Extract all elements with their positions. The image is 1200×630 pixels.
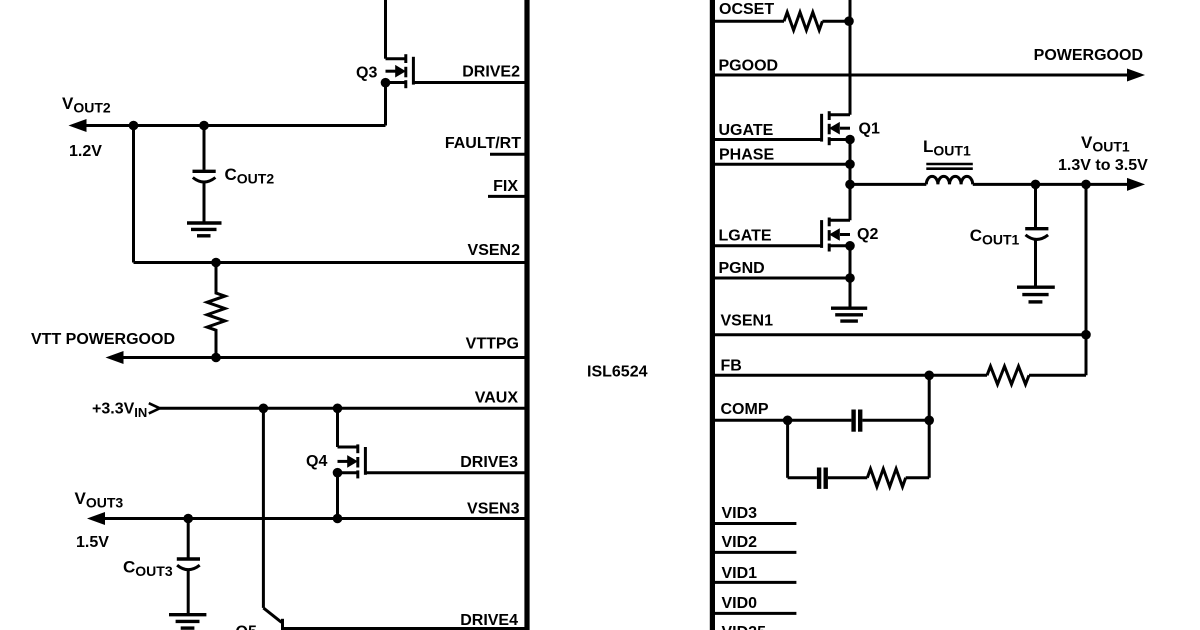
wire +12V rail from top to Q1 drain xyxy=(849,0,852,115)
svg-text:Q3: Q3 xyxy=(356,65,377,82)
svg-text:VID0: VID0 xyxy=(722,595,758,612)
pin stub VID3 xyxy=(713,522,796,525)
svg-text:ISL6524: ISL6524 xyxy=(587,364,648,381)
pin label VID2 xyxy=(722,534,758,551)
pin label DRIVE4 xyxy=(460,612,518,629)
pin stub VID0 xyxy=(713,612,796,615)
label transistor Q2 xyxy=(857,226,878,243)
wire Q4 source to VSEN3 rail xyxy=(336,473,339,519)
svg-text:COMP: COMP xyxy=(721,401,769,418)
pin label FIX xyxy=(493,178,518,195)
label net POWERGOOD xyxy=(1034,47,1143,64)
arrow POWERGOOD (right) xyxy=(1127,69,1145,82)
wire DRIVE3 pin to Q4 gate xyxy=(365,471,527,474)
wire FB pin line xyxy=(713,374,987,377)
svg-text:VID1: VID1 xyxy=(722,565,758,582)
node VSEN1 / feedback tap xyxy=(1081,330,1091,340)
node Q2 source junction xyxy=(845,241,855,251)
svg-text:FAULT/RT: FAULT/RT xyxy=(445,135,521,152)
wire VOUT1 to VSEN1/FB drop xyxy=(1085,184,1088,375)
node PHASE junction xyxy=(845,159,855,169)
node VSEN3 / Q4 source tap xyxy=(333,514,343,524)
wire lower branch left lead xyxy=(788,476,817,479)
svg-text:PHASE: PHASE xyxy=(719,147,774,164)
wire COMP pin line xyxy=(713,419,788,422)
wire phase node to LOUT1 xyxy=(850,183,926,186)
resistor OCSET xyxy=(784,12,822,30)
pin label VID3 xyxy=(722,505,758,522)
node VOUT1 / COUT1 tap xyxy=(1031,180,1041,190)
pin label VTTPG xyxy=(466,336,519,353)
pin label COMP xyxy=(721,401,769,418)
wire COUT2 bottom lead xyxy=(203,182,206,222)
svg-text:1.5V: 1.5V xyxy=(76,534,109,551)
wire COUT1 bottom lead xyxy=(1034,239,1037,286)
pin label DRIVE2 xyxy=(462,64,520,81)
wire lower resistor to FB drop xyxy=(906,476,930,479)
node phase / inductor tap xyxy=(845,180,855,190)
node Q4 source junction xyxy=(333,468,343,478)
arrow VTT POWERGOOD (left) xyxy=(106,351,124,364)
pin label VID0 xyxy=(722,595,758,612)
svg-text:DRIVE2: DRIVE2 xyxy=(462,64,520,81)
svg-text:FIX: FIX xyxy=(493,178,518,195)
svg-text:DRIVE3: DRIVE3 xyxy=(460,454,518,471)
node VOUT3 / COUT3 tap xyxy=(183,514,193,524)
node VAUX / Q5 rail tap xyxy=(259,404,269,414)
svg-text:POWERGOOD: POWERGOOD xyxy=(1034,47,1143,64)
node VOUT2 / COUT2 tap xyxy=(199,121,209,131)
arrow VOUT1 output (right) xyxy=(1127,178,1145,191)
svg-text:1.3V to 3.5V: 1.3V to 3.5V xyxy=(1058,157,1148,174)
label transistor Q4 xyxy=(306,453,327,470)
pin stub VID2 xyxy=(713,551,796,554)
node VOUT1 / VSEN1 tap xyxy=(1081,180,1091,190)
capacitor COMP lower C2 xyxy=(819,468,826,489)
node FB / compensation tap xyxy=(924,371,934,381)
transistor Q4 xyxy=(338,444,366,478)
label net VTT POWERGOOD xyxy=(31,331,175,348)
transistor Q5 gate bar (partial) xyxy=(281,619,284,630)
pin label PGOOD xyxy=(719,58,779,75)
wire VSEN1 pin line xyxy=(713,333,1086,336)
svg-text:DRIVE4: DRIVE4 xyxy=(460,612,518,629)
svg-text:VTT POWERGOOD: VTT POWERGOOD xyxy=(31,331,175,348)
label transistor Q5 (clipped) xyxy=(236,624,257,630)
pin label VSEN3 xyxy=(467,501,520,518)
pin label VSEN1 xyxy=(721,313,774,330)
svg-text:VSEN3: VSEN3 xyxy=(467,501,520,518)
svg-text:Q4: Q4 xyxy=(306,453,327,470)
transistor Q2 xyxy=(822,218,850,252)
pin label VID1 xyxy=(722,565,758,582)
node cap / FB-drop junction xyxy=(924,416,934,426)
svg-text:VAUX: VAUX xyxy=(475,390,519,407)
svg-text:LGATE: LGATE xyxy=(719,228,772,245)
label net +3.3VIN xyxy=(92,401,147,421)
label value 1.5V xyxy=(76,534,109,551)
label value 1.2V xyxy=(69,143,102,160)
label transistor Q1 xyxy=(859,121,880,138)
label capacitor COUT2 xyxy=(225,165,275,187)
capacitor COUT2 xyxy=(193,171,216,182)
wire OCSET resistor to rail xyxy=(822,20,850,23)
svg-text:Q1: Q1 xyxy=(859,121,880,138)
svg-text:FB: FB xyxy=(721,358,742,375)
resistor VSEN2-VTTPG xyxy=(207,263,225,358)
ground COUT3 xyxy=(169,615,206,628)
svg-text:Q2: Q2 xyxy=(857,226,878,243)
wire DRIVE2 pin to Q3 gate xyxy=(413,81,527,84)
wire Q2 source to ground xyxy=(849,246,852,307)
pin label VSEN2 xyxy=(468,242,521,259)
capacitor COUT3 xyxy=(177,559,200,570)
arrow VOUT3 output (left) xyxy=(87,512,105,525)
wire phase node rail Q1 source to Q2 drain xyxy=(849,140,852,221)
svg-text:VSEN1: VSEN1 xyxy=(721,313,774,330)
pin stub FIX xyxy=(488,195,527,198)
pin stub VID1 xyxy=(713,581,796,584)
connector +3.3VIN chevron xyxy=(149,403,160,413)
wire LOUT1 to VOUT1 arrow xyxy=(973,183,1130,186)
wire VSEN2 pin line xyxy=(134,261,528,264)
wire COMP to series capacitor xyxy=(788,419,852,422)
wire Q3 source to VOUT2 rail xyxy=(384,83,387,126)
label transistor Q3 xyxy=(356,65,377,82)
label net VOUT3 xyxy=(75,489,124,511)
node Q3 source junction xyxy=(381,78,391,88)
IC U1 ISL6524 right edge xyxy=(710,0,715,630)
wire VSEN2 drop from VOUT2 rail xyxy=(132,126,135,263)
wire PGND pin line xyxy=(713,277,850,280)
wire lower cap to resistor xyxy=(828,476,867,479)
capacitor COUT1 xyxy=(1025,229,1048,240)
pin label FAULT/RT xyxy=(445,135,521,152)
wire LGATE pin to Q2 gate xyxy=(713,244,822,247)
label net VOUT1 xyxy=(1081,133,1130,155)
wire series capacitor to FB drop xyxy=(862,419,929,422)
wire COUT2 top lead xyxy=(203,126,206,170)
node VAUX / Q4 drain tap xyxy=(333,404,343,414)
resistor COMP lower R xyxy=(867,469,905,487)
node PGND junction xyxy=(845,273,855,283)
svg-text:VID3: VID3 xyxy=(722,505,758,522)
node VOUT2 / VSEN2 tap xyxy=(129,121,139,131)
arrow VOUT2 output (left) xyxy=(69,119,87,132)
wire PGOOD pin line xyxy=(713,74,1130,77)
svg-text:PGND: PGND xyxy=(719,260,765,277)
node OCSET / rail junction xyxy=(844,16,854,26)
wire VAUX pin line xyxy=(160,407,527,410)
wire COUT3 bottom lead xyxy=(187,569,190,613)
pin label VID25 (clipped) xyxy=(722,624,767,630)
svg-text:OCSET: OCSET xyxy=(719,1,774,18)
svg-text:VSEN2: VSEN2 xyxy=(468,242,521,259)
pin stub FAULT/RT xyxy=(490,153,527,156)
label IC name ISL6524 xyxy=(587,364,648,381)
inductor LOUT1 xyxy=(926,164,973,184)
pin label PGND xyxy=(719,260,765,277)
label net VOUT2 xyxy=(62,94,111,116)
wire DRIVE4 pin line xyxy=(283,627,527,630)
capacitor COMP series C1 xyxy=(854,410,861,432)
pin label VAUX xyxy=(475,390,519,407)
pin label FB xyxy=(721,358,742,375)
label capacitor COUT1 xyxy=(970,226,1020,248)
svg-text:PGOOD: PGOOD xyxy=(719,58,779,75)
ground COUT1 xyxy=(1017,287,1055,302)
wire VTTPG pin line xyxy=(120,356,527,359)
transistor Q3 xyxy=(386,54,414,88)
node VTTPG junction xyxy=(211,353,221,363)
wire COUT3 top lead xyxy=(187,519,190,558)
pin label OCSET xyxy=(719,1,774,18)
node VSEN2 / resistor tap xyxy=(211,258,221,268)
resistor FB feedback xyxy=(987,366,1029,384)
node Q1 source junction xyxy=(845,135,855,145)
wire UGATE pin to Q1 gate xyxy=(713,138,822,141)
label value 1.3V to 3.5V xyxy=(1058,157,1148,174)
svg-text:UGATE: UGATE xyxy=(719,122,774,139)
wire VSEN3 / VOUT3 pin line xyxy=(102,517,527,520)
wire COUT1 top lead xyxy=(1034,184,1037,227)
wire Q5 gate diagonal lead xyxy=(263,608,281,622)
wire Q3 drain rail from top xyxy=(384,0,387,59)
svg-text:VID2: VID2 xyxy=(722,534,758,551)
wire FB resistor to VSEN1 drop xyxy=(1029,374,1086,377)
svg-text:Q5: Q5 xyxy=(236,624,257,630)
label inductor LOUT1 xyxy=(923,137,971,159)
label capacitor COUT3 xyxy=(123,558,173,580)
ground COUT2 xyxy=(187,223,222,236)
node COMP junction xyxy=(783,416,793,426)
IC U1 ISL6524 left edge xyxy=(524,0,529,630)
wire OCSET pin lead xyxy=(713,20,784,23)
pin label UGATE xyxy=(719,122,774,139)
wire Q4 drain rail xyxy=(336,408,339,447)
pin label LGATE xyxy=(719,228,772,245)
wire COMP branch down xyxy=(786,420,789,478)
svg-text:1.2V: 1.2V xyxy=(69,143,102,160)
wire PHASE pin line xyxy=(713,163,850,166)
ground Q2/PGND xyxy=(831,308,867,321)
svg-text:VTTPG: VTTPG xyxy=(466,336,519,353)
svg-text:VID25: VID25 xyxy=(722,624,767,630)
wire VOUT2 output line xyxy=(83,124,386,127)
pin label PHASE xyxy=(719,147,774,164)
wire Q5 rail from VAUX xyxy=(262,408,265,608)
transistor Q1 xyxy=(822,111,850,145)
wire FB tap down to COMP network xyxy=(928,375,931,478)
pin label DRIVE3 xyxy=(460,454,518,471)
